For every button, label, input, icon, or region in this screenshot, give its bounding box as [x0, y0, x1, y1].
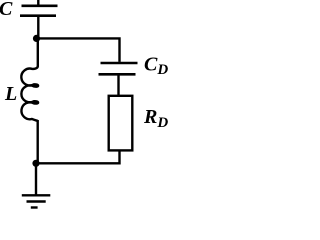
- resistor RD: [109, 96, 133, 151]
- wire top terminal stub: [37, 0, 39, 5]
- wire node A to right branch top: [37, 38, 120, 62]
- capacitor C: [20, 6, 58, 16]
- wire node B to ground: [35, 163, 37, 195]
- svg-text:CD: CD: [144, 54, 168, 79]
- wire node A to inductor top: [37, 39, 39, 67]
- svg-text:L: L: [4, 83, 17, 105]
- ground: [22, 195, 51, 207]
- svg-text:C: C: [0, 0, 13, 20]
- wire RD bottom to node B: [36, 151, 120, 164]
- svg-text:RD: RD: [143, 106, 168, 131]
- node A junction dot: [33, 35, 40, 42]
- wire inductor bottom to node B: [37, 120, 39, 163]
- wire C bottom to node A: [37, 17, 39, 39]
- wire CD bottom to RD top: [117, 76, 119, 96]
- inductor L: [21, 66, 38, 121]
- node B junction dot: [32, 160, 39, 167]
- capacitor CD: [99, 63, 138, 74]
